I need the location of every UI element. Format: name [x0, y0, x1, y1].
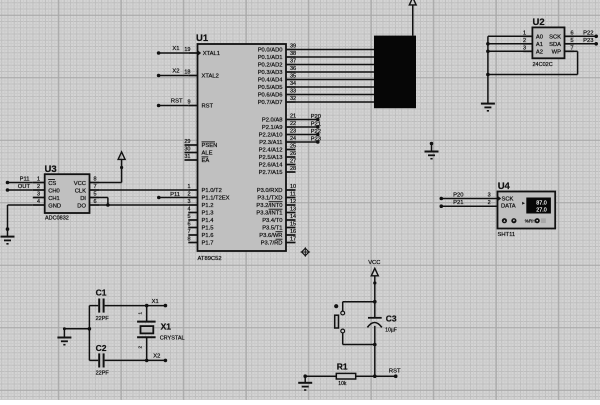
- svg-text:DO: DO: [77, 203, 86, 209]
- svg-text:VCC: VCC: [368, 260, 380, 266]
- svg-text:X2: X2: [153, 354, 160, 360]
- svg-text:P22: P22: [311, 129, 321, 135]
- svg-text:DI: DI: [80, 196, 86, 202]
- svg-text:P3.4/T0: P3.4/T0: [262, 218, 282, 224]
- svg-text:34: 34: [290, 81, 296, 87]
- svg-text:SDA: SDA: [549, 42, 561, 48]
- svg-text:6: 6: [94, 199, 97, 205]
- svg-text:21: 21: [290, 114, 296, 120]
- svg-text:C2: C2: [96, 343, 107, 353]
- svg-text:23: 23: [290, 129, 296, 135]
- svg-text:P21: P21: [311, 121, 321, 127]
- svg-text:P3.0/RXD: P3.0/RXD: [257, 188, 283, 194]
- svg-text:33: 33: [290, 89, 296, 95]
- svg-text:AT89C52: AT89C52: [198, 256, 222, 262]
- svg-text:2: 2: [37, 184, 40, 190]
- svg-text:P3.7/RD: P3.7/RD: [261, 241, 283, 247]
- svg-text:24C02C: 24C02C: [533, 62, 553, 68]
- svg-text:SCK: SCK: [502, 197, 514, 203]
- svg-text:A1: A1: [536, 42, 543, 48]
- svg-text:5: 5: [187, 214, 190, 220]
- svg-text:5: 5: [94, 192, 97, 198]
- svg-text:39: 39: [290, 44, 296, 50]
- svg-text:35: 35: [290, 74, 296, 80]
- svg-text:XTAL2: XTAL2: [202, 74, 219, 80]
- svg-text:P2.3/A11: P2.3/A11: [259, 140, 282, 146]
- svg-text:6: 6: [571, 31, 574, 37]
- svg-text:P0.4/AD4: P0.4/AD4: [258, 78, 284, 84]
- svg-text:87.0: 87.0: [536, 200, 547, 206]
- svg-text:P0.1/AD1: P0.1/AD1: [258, 55, 283, 61]
- svg-text:38: 38: [290, 51, 296, 57]
- svg-text:P2.0/A8: P2.0/A8: [262, 118, 283, 124]
- svg-text:P21: P21: [453, 200, 463, 206]
- svg-text:7: 7: [94, 184, 97, 190]
- svg-text:P3.2/INT0: P3.2/INT0: [256, 203, 282, 209]
- svg-text:P23: P23: [311, 136, 321, 142]
- svg-text:P1.0/T2: P1.0/T2: [202, 188, 222, 194]
- svg-text:P11: P11: [20, 177, 30, 183]
- svg-text:14: 14: [290, 214, 296, 220]
- svg-text:X1: X1: [172, 46, 179, 52]
- svg-text:XTAL1: XTAL1: [203, 51, 220, 57]
- svg-text:P0.2/AD2: P0.2/AD2: [258, 63, 283, 69]
- svg-text:8: 8: [187, 237, 190, 243]
- svg-text:%RH: %RH: [525, 219, 536, 224]
- svg-text:GND: GND: [48, 203, 61, 209]
- svg-text:10k: 10k: [338, 381, 347, 387]
- svg-text:10µF: 10µF: [385, 328, 397, 334]
- svg-text:24: 24: [290, 136, 296, 142]
- svg-text:U4: U4: [498, 181, 511, 192]
- svg-text:SHT11: SHT11: [498, 232, 516, 238]
- svg-text:6: 6: [187, 222, 190, 228]
- svg-text:25: 25: [290, 144, 296, 150]
- svg-text:10: 10: [290, 184, 296, 190]
- svg-text:P2.2/A10: P2.2/A10: [259, 133, 283, 139]
- svg-text:VCC: VCC: [74, 181, 86, 187]
- svg-text:CRYSTAL: CRYSTAL: [160, 336, 185, 342]
- svg-text:1: 1: [37, 177, 40, 183]
- svg-text:P3.5/T1: P3.5/T1: [262, 226, 282, 232]
- svg-text:P1.1/T2EX: P1.1/T2EX: [202, 196, 230, 202]
- svg-text:P3.6/WR: P3.6/WR: [259, 233, 282, 239]
- svg-text:X2: X2: [172, 68, 179, 74]
- svg-text:P2.6/A14: P2.6/A14: [259, 163, 284, 169]
- svg-text:2: 2: [488, 200, 491, 206]
- svg-text:3: 3: [488, 193, 491, 199]
- svg-text:16: 16: [290, 229, 296, 235]
- svg-text:P1.6: P1.6: [202, 233, 214, 239]
- svg-text:P0.3/AD3: P0.3/AD3: [258, 70, 283, 76]
- svg-text:PSEN: PSEN: [202, 143, 218, 149]
- svg-text:7: 7: [187, 229, 190, 235]
- svg-text:P23: P23: [583, 38, 593, 44]
- svg-text:1: 1: [523, 31, 526, 37]
- svg-text:8: 8: [94, 177, 97, 183]
- svg-text:CH1: CH1: [48, 196, 60, 202]
- svg-text:22PF: 22PF: [96, 370, 110, 376]
- svg-text:CH0: CH0: [48, 188, 60, 194]
- svg-text:4: 4: [37, 199, 40, 205]
- svg-text:U1: U1: [196, 33, 209, 44]
- svg-text:P11: P11: [170, 192, 180, 198]
- svg-text:U3: U3: [45, 164, 57, 175]
- svg-text:R1: R1: [337, 362, 348, 372]
- svg-text:P20: P20: [311, 114, 321, 120]
- svg-text:P0.0/AD0: P0.0/AD0: [258, 48, 283, 54]
- svg-text:30: 30: [184, 147, 190, 153]
- svg-text:17: 17: [290, 237, 296, 243]
- svg-text:22: 22: [290, 121, 296, 127]
- svg-text:P22: P22: [583, 31, 593, 37]
- svg-text:A2: A2: [536, 50, 543, 56]
- svg-text:22PF: 22PF: [96, 316, 110, 322]
- svg-text:P0.7/AD7: P0.7/AD7: [258, 100, 283, 106]
- svg-text:WP: WP: [552, 50, 561, 56]
- svg-text:CLK: CLK: [75, 188, 86, 194]
- svg-text:P2.1/A9: P2.1/A9: [262, 125, 283, 131]
- svg-text:P20: P20: [453, 192, 463, 198]
- svg-text:29: 29: [184, 139, 190, 145]
- svg-text:RST: RST: [202, 104, 214, 110]
- svg-text:3: 3: [523, 46, 526, 52]
- svg-text:ALE: ALE: [202, 151, 213, 157]
- svg-text:U2: U2: [533, 17, 545, 28]
- svg-text:37: 37: [290, 59, 296, 65]
- svg-text:P3.3/INT1: P3.3/INT1: [256, 211, 282, 217]
- svg-text:P1.3: P1.3: [202, 211, 214, 217]
- svg-text:31: 31: [184, 154, 190, 160]
- svg-text:5: 5: [571, 38, 574, 44]
- svg-text:C1: C1: [96, 288, 107, 298]
- svg-text:OUT: OUT: [18, 184, 31, 190]
- svg-text:P2.7/A15: P2.7/A15: [259, 170, 283, 176]
- svg-text:P0.5/AD5: P0.5/AD5: [258, 85, 283, 91]
- svg-text:11: 11: [290, 192, 296, 198]
- svg-text:27: 27: [290, 159, 296, 165]
- svg-text:32: 32: [290, 96, 296, 102]
- svg-text:P0.6/AD6: P0.6/AD6: [258, 93, 283, 99]
- svg-text:C3: C3: [386, 313, 397, 323]
- svg-text:ADC0832: ADC0832: [45, 216, 69, 222]
- svg-text:DATA: DATA: [501, 204, 516, 210]
- svg-text:12: 12: [290, 199, 296, 205]
- svg-text:X1: X1: [161, 322, 172, 332]
- svg-text:28: 28: [290, 166, 296, 172]
- svg-text:P1.2: P1.2: [202, 203, 214, 209]
- svg-text:36: 36: [290, 66, 296, 72]
- svg-text:15: 15: [290, 222, 296, 228]
- svg-text:27.0: 27.0: [536, 208, 547, 214]
- svg-text:2: 2: [523, 38, 526, 44]
- svg-text:4: 4: [187, 207, 190, 213]
- svg-text:P2.4/A12: P2.4/A12: [259, 148, 283, 154]
- svg-text:P1.4: P1.4: [202, 218, 215, 224]
- svg-text:3: 3: [37, 192, 40, 198]
- svg-text:P2.5/A13: P2.5/A13: [259, 155, 283, 161]
- svg-text:A0: A0: [536, 35, 543, 41]
- svg-text:P1.7: P1.7: [202, 241, 214, 247]
- svg-text:P1.5: P1.5: [202, 226, 214, 232]
- svg-text:13: 13: [290, 207, 296, 213]
- svg-text:P3.1/TXD: P3.1/TXD: [257, 196, 282, 202]
- svg-text:EA: EA: [202, 158, 210, 164]
- svg-text:X1: X1: [152, 299, 159, 305]
- svg-text:SCK: SCK: [549, 35, 561, 41]
- svg-text:RST: RST: [389, 369, 401, 375]
- svg-text:26: 26: [290, 151, 296, 157]
- svg-text:CS: CS: [48, 181, 56, 187]
- svg-text:RST: RST: [171, 98, 183, 104]
- svg-text:7: 7: [571, 46, 574, 52]
